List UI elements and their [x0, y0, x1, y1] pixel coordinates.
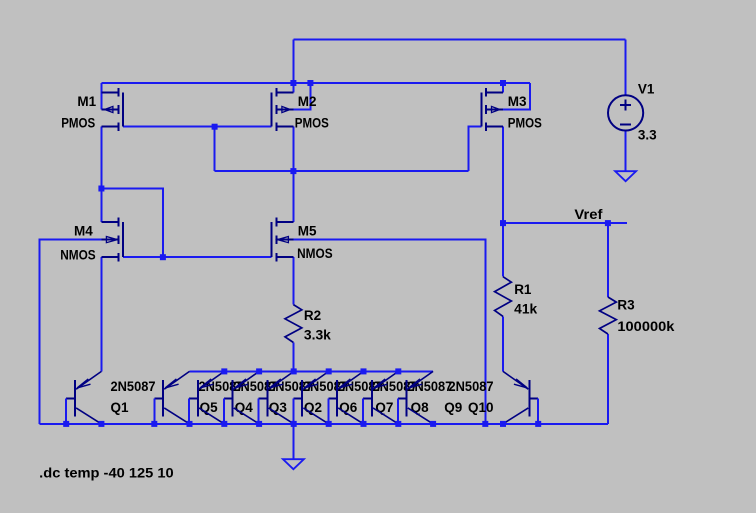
- svg-text:Q3: Q3: [269, 400, 288, 415]
- svg-text:3.3k: 3.3k: [304, 328, 331, 343]
- transistor Q3 2N5087: [224, 371, 259, 424]
- label Q6: [339, 400, 358, 415]
- label Q2: [304, 400, 322, 415]
- wire M3 body tie: [503, 83, 530, 110]
- svg-text:NMOS: NMOS: [297, 246, 333, 261]
- wire M5 source to R2: [292, 257, 294, 304]
- wire M2 source lead: [292, 83, 294, 92]
- label V1: [638, 82, 655, 97]
- wire Q5 base drop: [153, 398, 155, 424]
- label R1 value 41k: [514, 302, 537, 317]
- junction ground rail x224: [221, 421, 227, 427]
- junction mirror node: [98, 186, 104, 192]
- wire M1 source/body column: [100, 83, 102, 110]
- svg-text:Q7: Q7: [375, 400, 393, 415]
- junction ground rail x190: [187, 421, 193, 427]
- transistor Q10 2N5087: [503, 371, 538, 424]
- label Q7: [375, 400, 393, 415]
- spice directive .dc sweep: [39, 464, 174, 480]
- wire M4 source to Q1 emitter: [100, 257, 102, 371]
- wire V1 bottom lead: [625, 131, 627, 172]
- transistor Q6 2N5087: [294, 371, 329, 424]
- label M1: [77, 94, 96, 109]
- wire bottom ground rail: [39, 423, 608, 425]
- label Q8: [411, 400, 430, 415]
- svg-text:Q5: Q5: [200, 400, 219, 415]
- svg-text:100000k: 100000k: [617, 319, 675, 334]
- wire M3 source lead: [502, 83, 504, 92]
- label V1 value 3.3: [638, 127, 657, 142]
- junction M3 source: [500, 80, 506, 86]
- wire gate-bus drop: [214, 127, 216, 171]
- wire R2 bottom lead: [292, 343, 294, 372]
- mosfet M4 NMOS: [101, 218, 123, 262]
- junction M2 body: [307, 80, 313, 86]
- svg-text:41k: 41k: [514, 302, 537, 317]
- label M5: [298, 224, 317, 239]
- wire Q2 base drop: [258, 398, 260, 424]
- mosfet M3 PMOS: [481, 88, 503, 131]
- transistor Q4 2N5087: [189, 371, 224, 424]
- junction gate net: [290, 168, 296, 174]
- wire M4 body to ground rail: [39, 240, 101, 424]
- transistor Q1 2N5087: [66, 371, 101, 424]
- junction emitter rail x259: [256, 368, 262, 374]
- label Q5: [200, 400, 219, 415]
- wire V1 top lead: [625, 39, 627, 95]
- svg-text:PMOS: PMOS: [61, 116, 95, 131]
- wire Q10 base drop: [537, 398, 539, 424]
- wire R3 top lead: [607, 223, 609, 297]
- junction Vref/R3: [605, 220, 611, 226]
- label R1: [514, 282, 532, 297]
- label Q6 2N5087: [338, 379, 383, 394]
- junction emitter rail x294: [291, 368, 297, 374]
- wire emitter rail: [190, 370, 434, 372]
- junction ground rail x259: [256, 421, 262, 427]
- wire M2 column to top rail: [292, 39, 294, 83]
- wire PMOS gate bus: [123, 126, 272, 128]
- wire Vref net: [503, 222, 627, 224]
- wire Q9 base drop: [397, 398, 399, 424]
- junction ground rail x538: [535, 421, 541, 427]
- mosfet M2 PMOS: [272, 88, 294, 131]
- junction ground rail x66: [63, 421, 69, 427]
- svg-text:2N5087: 2N5087: [449, 379, 494, 394]
- wire NMOS gate bus: [123, 256, 272, 258]
- label Q2 2N5087: [303, 379, 348, 394]
- mosfet M5 NMOS: [272, 218, 294, 262]
- label M2 PMOS: [295, 116, 329, 131]
- label R3: [617, 298, 635, 313]
- wire R1 bottom to Q10 emitter: [502, 316, 504, 371]
- svg-text:R3: R3: [617, 298, 635, 313]
- svg-text:M1: M1: [77, 94, 96, 109]
- transistor Q7 2N5087: [328, 371, 363, 424]
- svg-text:.dc temp -40 125 10: .dc temp -40 125 10: [39, 464, 174, 480]
- label M4: [74, 224, 93, 239]
- svg-text:Q8: Q8: [411, 400, 430, 415]
- label Q9 2N5087: [449, 379, 494, 394]
- junction NMOS gate bus: [160, 254, 166, 260]
- junction ground rail x294: [291, 421, 297, 427]
- label Q5 2N5087: [199, 379, 244, 394]
- svg-text:3.3: 3.3: [638, 127, 657, 142]
- label Q1 2N5087: [111, 379, 156, 394]
- label M4 NMOS: [60, 247, 95, 262]
- svg-text:R1: R1: [514, 282, 532, 297]
- svg-text:Q4: Q4: [235, 400, 254, 415]
- svg-text:Q2: Q2: [304, 400, 322, 415]
- wire Q8 base drop: [362, 398, 364, 424]
- svg-text:NMOS: NMOS: [60, 247, 95, 262]
- label M2: [298, 94, 317, 109]
- label R3 value 100000k: [617, 319, 675, 334]
- svg-text:M5: M5: [298, 224, 317, 239]
- junction Vref/R1: [500, 220, 506, 226]
- junction emitter rail x329: [326, 368, 332, 374]
- label R2: [304, 308, 321, 323]
- label M1 PMOS: [61, 116, 95, 131]
- wire Q7 base drop: [327, 398, 329, 424]
- junction ground rail x398: [395, 421, 401, 427]
- svg-text:Q10: Q10: [468, 400, 494, 415]
- junction emitter rail x398: [395, 368, 401, 374]
- junction M2/top-rail: [290, 80, 296, 86]
- svg-text:M4: M4: [74, 224, 93, 239]
- junction ground rail x154: [151, 421, 157, 427]
- label M3: [508, 94, 527, 109]
- ground below rail: [283, 459, 304, 469]
- label Q8 2N5087: [407, 379, 452, 394]
- wire M2 drain drop: [292, 127, 294, 171]
- junction emitter rail x364: [361, 368, 367, 374]
- label Q9: [444, 400, 462, 415]
- svg-text:2N5087: 2N5087: [111, 379, 156, 394]
- wire PMOS source rail: [101, 82, 530, 84]
- junction ground rail x485: [482, 421, 488, 427]
- wire gate net horizontal: [215, 170, 469, 172]
- label Q4: [235, 400, 254, 415]
- label Q7 2N5087: [373, 379, 418, 394]
- junction ground rail x433: [430, 421, 436, 427]
- label Q3 2N5087: [268, 379, 313, 394]
- wire Q3 base drop: [223, 398, 225, 424]
- wire M3 drain to R1: [502, 127, 504, 277]
- voltage source V1: [608, 95, 643, 130]
- svg-text:Vref: Vref: [574, 207, 603, 222]
- ground below V1: [615, 171, 636, 181]
- label R2 value 3.3k: [304, 328, 331, 343]
- junction gate bus drop: [212, 124, 218, 130]
- resistor R3: [600, 297, 617, 334]
- svg-text:Q6: Q6: [339, 400, 358, 415]
- label M5 NMOS: [297, 246, 333, 261]
- node Vref label: [574, 207, 603, 222]
- junction ground rail x503: [500, 421, 506, 427]
- resistor R1: [495, 277, 512, 317]
- svg-text:V1: V1: [638, 82, 655, 97]
- svg-text:R2: R2: [304, 308, 321, 323]
- wire R3 bottom lead: [607, 334, 609, 424]
- wire Q6 base drop: [293, 398, 295, 424]
- label Q4 2N5087: [233, 379, 278, 394]
- junction emitter rail x224: [221, 368, 227, 374]
- wire M5 drain feed: [292, 171, 294, 222]
- svg-text:Q1: Q1: [111, 400, 130, 415]
- svg-text:M2: M2: [298, 94, 317, 109]
- wire M5 body to ground rail: [293, 240, 485, 424]
- label Q3: [269, 400, 288, 415]
- wire Q4 base drop: [188, 398, 190, 424]
- svg-text:PMOS: PMOS: [295, 116, 329, 131]
- svg-text:PMOS: PMOS: [508, 116, 542, 131]
- transistor Q8 2N5087: [363, 371, 398, 424]
- svg-text:Q9: Q9: [444, 400, 462, 415]
- wire M3 gate link: [469, 127, 482, 171]
- label Q10: [468, 400, 494, 415]
- transistor Q2 2N5087: [259, 371, 294, 424]
- wire mirror branch: [101, 189, 162, 258]
- svg-text:M3: M3: [508, 94, 527, 109]
- wire M1 drain to M4 drain: [100, 127, 102, 222]
- transistor Q5 2N5087: [154, 371, 189, 424]
- junction ground rail x364: [361, 421, 367, 427]
- label M3 PMOS: [508, 116, 542, 131]
- wire Q1 base drop: [65, 398, 67, 424]
- label Q1: [111, 400, 130, 415]
- junction ground rail x101: [98, 421, 104, 427]
- mosfet M1 PMOS: [101, 88, 123, 131]
- wire top VDD rail: [293, 38, 625, 40]
- wire M2 body tie: [293, 83, 310, 110]
- resistor R2: [285, 305, 302, 343]
- wire ground stub: [292, 424, 294, 459]
- transistor Q9 2N5087: [398, 371, 433, 424]
- junction ground rail x329: [326, 421, 332, 427]
